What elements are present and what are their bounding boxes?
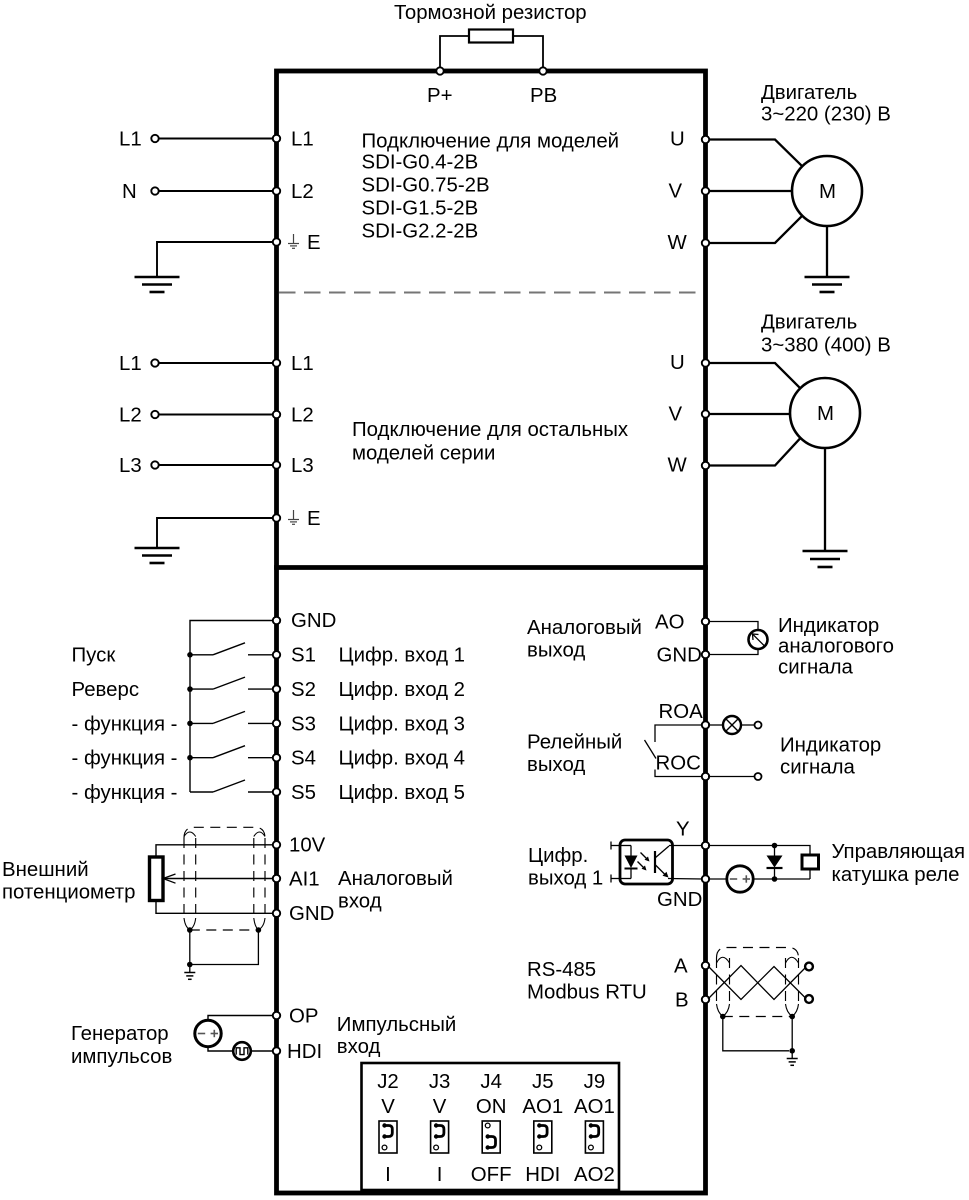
terminal S4 (273, 754, 280, 761)
junction dot S3 (187, 721, 193, 727)
wire E ground section1 (157, 242, 274, 277)
relay coil (802, 855, 819, 869)
svg-text:Индикатор: Индикатор (778, 615, 879, 637)
terminal ROA (702, 721, 709, 728)
svg-text:V: V (669, 180, 683, 202)
svg-text:J9: J9 (584, 1071, 606, 1093)
svg-text:А: А (674, 955, 688, 977)
terminal external B (805, 995, 813, 1003)
svg-text:GND: GND (289, 903, 334, 925)
svg-text:HDI: HDI (287, 1041, 322, 1063)
terminal E section1 (273, 238, 280, 245)
terminal external ROC (755, 773, 762, 780)
svg-text:S4: S4 (291, 748, 316, 770)
junction dot S2 (187, 686, 193, 692)
terminal N external (151, 187, 158, 194)
svg-text:L1: L1 (291, 353, 314, 375)
wire RS485 drain left (723, 1017, 789, 1051)
ground section2 input (135, 547, 180, 550)
svg-text:Релейный: Релейный (527, 732, 622, 754)
svg-text:Управляющая: Управляющая (832, 841, 966, 863)
svg-text:W: W (668, 232, 688, 254)
svg-text:OFF: OFF (471, 1164, 512, 1186)
svg-text:выход 1: выход 1 (528, 868, 603, 890)
svg-text:AO2: AO2 (574, 1164, 615, 1186)
svg-text:10V: 10V (289, 835, 326, 857)
terminal external A (805, 963, 813, 971)
cable shield potentiometer (184, 827, 265, 838)
svg-text:I: I (385, 1164, 391, 1186)
terminal L2 external section2 (151, 411, 158, 418)
terminal GND control (273, 617, 280, 624)
svg-text:S3: S3 (291, 713, 316, 735)
wire motor2 to ground (824, 448, 826, 551)
svg-text:Modbus RTU: Modbus RTU (527, 982, 647, 1004)
jumper J3 (431, 1121, 449, 1153)
switch S3 (190, 722, 213, 724)
wire U motor2 (708, 363, 800, 388)
svg-text:3~380 (400) В: 3~380 (400) В (761, 335, 891, 357)
wire brake resistor to PB (513, 36, 543, 69)
drive enclosure box (277, 71, 706, 1193)
terminal S5 (273, 788, 280, 795)
terminal L1 on enclosure (273, 135, 280, 142)
svg-text:сигнала: сигнала (778, 657, 854, 679)
jumper J9 (585, 1121, 603, 1153)
junction dot S1 (187, 652, 193, 658)
svg-text:S2: S2 (291, 679, 316, 701)
junction dot shield right (256, 927, 262, 933)
svg-text:аналогового: аналогового (778, 636, 894, 658)
ground shield potentiometer (184, 972, 195, 974)
wire motor1 to ground (826, 226, 828, 277)
wire AI1 wiper (163, 878, 274, 880)
svg-text:GND: GND (291, 610, 336, 632)
svg-text:3~220 (230) В: 3~220 (230) В (761, 104, 891, 126)
svg-text:OP: OP (289, 1005, 318, 1027)
svg-text:Тормозной резистор: Тормозной резистор (394, 2, 587, 24)
svg-text:U: U (670, 352, 685, 374)
terminal V motor2 (702, 410, 709, 417)
svg-text:выход: выход (527, 754, 585, 776)
twisted pair wire 1 (708, 966, 807, 1000)
svg-text:S5: S5 (291, 782, 316, 804)
terminal L2 on enclosure (273, 187, 280, 194)
wire opto collector to Y (669, 845, 703, 847)
svg-text:Реверс: Реверс (72, 679, 140, 701)
terminal S1 (273, 651, 280, 658)
svg-text:GND: GND (657, 889, 702, 911)
terminal U motor2 (702, 359, 709, 366)
wire 10V to potentiometer (156, 845, 274, 857)
wire U motor1 (708, 140, 802, 167)
svg-text:- функция -: - функция - (72, 782, 178, 804)
wire pulse symbol to HDI (251, 1050, 274, 1052)
switch S5 (190, 791, 213, 793)
dashed separator between model sections (279, 292, 703, 294)
svg-text:Аналоговый: Аналоговый (338, 868, 453, 890)
svg-text:- функция -: - функция - (72, 713, 178, 735)
wire L1 input section2 (159, 362, 274, 364)
ground motor1 (805, 276, 850, 279)
wire W motor1 (708, 216, 802, 243)
svg-text:SDI-G0.75-2В: SDI-G0.75-2В (362, 175, 490, 197)
svg-text:выход: выход (527, 640, 585, 662)
ground motor2 (803, 550, 848, 553)
junction dot shield left (187, 927, 193, 933)
svg-text:сигнала: сигнала (780, 757, 856, 779)
resistor brake resistor (469, 30, 513, 43)
terminal P+ (436, 67, 443, 74)
svg-text:Подключение для остальных: Подключение для остальных (352, 419, 628, 441)
svg-text:L1: L1 (119, 129, 142, 151)
terminal external ROA (755, 722, 762, 729)
svg-text:РВ: РВ (530, 85, 557, 107)
svg-text:AO1: AO1 (522, 1096, 563, 1118)
wiper arrowhead (163, 874, 176, 883)
svg-text:Аналоговый: Аналоговый (527, 617, 642, 639)
terminal L1 external section2 (151, 359, 158, 366)
svg-text:SDI-G1.5-2В: SDI-G1.5-2В (362, 198, 479, 220)
svg-text:ROC: ROC (656, 753, 701, 775)
terminal L3 external section2 (151, 461, 158, 468)
svg-text:Цифр. вход 1: Цифр. вход 1 (339, 645, 466, 667)
svg-text:J2: J2 (377, 1071, 399, 1093)
wire L2 input section2 (159, 414, 274, 416)
wire L1 input (159, 138, 274, 140)
terminal L1 on enclosure section2 (273, 359, 280, 366)
wire drain to ground (189, 965, 191, 973)
wire potentiometer to GND (156, 901, 274, 914)
junction dot RS485 shield right (789, 1014, 795, 1020)
wire W motor2 (708, 438, 800, 465)
junction dot diode top (772, 843, 778, 849)
svg-text:SDI-G0.4-2В: SDI-G0.4-2В (362, 152, 479, 174)
svg-text:W: W (668, 454, 688, 476)
svg-text:Пуск: Пуск (72, 645, 117, 667)
motor M1 (792, 156, 862, 226)
svg-text:Цифр. вход 3: Цифр. вход 3 (339, 713, 466, 735)
switch S2 (190, 688, 213, 690)
terminal GND analog out (702, 651, 709, 658)
supply source circle (727, 866, 753, 892)
svg-text:V: V (381, 1096, 395, 1118)
wire RS485 drain to ground (791, 1051, 793, 1059)
wire lamp to external terminal (741, 724, 754, 726)
optocoupler left lead top (611, 845, 620, 847)
optocoupler body (620, 840, 673, 884)
svg-text:Цифр. вход 2: Цифр. вход 2 (339, 679, 466, 701)
svg-text:GND: GND (657, 644, 702, 666)
wire shield drain right (190, 930, 259, 965)
svg-text:М: М (817, 403, 834, 425)
svg-text:N: N (122, 181, 137, 203)
terminal L1 external (151, 135, 158, 142)
terminal V motor1 (702, 187, 709, 194)
svg-text:J5: J5 (532, 1071, 554, 1093)
pulse source circle (195, 1020, 221, 1046)
wire AO to indicator (708, 622, 758, 631)
pulse symbol circle (233, 1042, 251, 1060)
svg-text:ON: ON (476, 1096, 507, 1118)
wire V motor1 (708, 190, 792, 192)
svg-text:вход: вход (337, 1036, 381, 1058)
svg-text:J3: J3 (429, 1071, 451, 1093)
earth glyph E section2 (288, 510, 299, 524)
svg-text:ROA: ROA (659, 701, 704, 723)
wire indicator to GND (708, 649, 758, 655)
terminal OP (273, 1012, 280, 1019)
terminal 10V (273, 841, 280, 848)
terminal A (702, 962, 709, 969)
junction dot shield drain (187, 962, 193, 968)
svg-text:Y: Y (676, 819, 690, 841)
terminal W motor2 (702, 462, 709, 469)
svg-text:V: V (669, 403, 683, 425)
svg-text:RS-485: RS-485 (527, 959, 596, 981)
terminal L3 on enclosure section2 (273, 461, 280, 468)
svg-text:AO1: AO1 (574, 1096, 615, 1118)
wire pulse source to pulse symbol (208, 1047, 233, 1051)
svg-text:В: В (675, 989, 689, 1011)
svg-text:Цифр. вход 4: Цифр. вход 4 (339, 748, 466, 770)
supply source plus (743, 878, 750, 880)
wire L3 input section2 (159, 464, 274, 466)
analog indicator meter (749, 630, 768, 649)
wire GND to switch bus (190, 621, 274, 793)
svg-text:U: U (670, 128, 685, 150)
terminal GND digital out (702, 875, 709, 882)
ground section1 input (135, 276, 180, 279)
svg-text:E: E (307, 508, 321, 530)
terminal E section2 (273, 514, 280, 521)
svg-text:Генератор: Генератор (71, 1023, 169, 1045)
jumper J5 (534, 1121, 552, 1153)
switch S1 (190, 654, 213, 656)
svg-text:Цифр.: Цифр. (528, 845, 588, 867)
pulse source plus (211, 1033, 218, 1035)
junction dot RS485 drain (789, 1048, 795, 1054)
earth glyph E section1 (288, 234, 299, 248)
svg-text:S1: S1 (291, 645, 316, 667)
svg-text:I: I (437, 1164, 443, 1186)
wire ROC to external terminal (708, 776, 754, 778)
terminal S3 (273, 720, 280, 727)
svg-text:катушка реле: катушка реле (832, 864, 960, 886)
terminal ROC (702, 773, 709, 780)
svg-text:- функция -: - функция - (72, 748, 178, 770)
svg-text:P+: P+ (427, 85, 453, 107)
optocoupler LED (620, 845, 631, 847)
svg-text:М: М (819, 181, 836, 203)
svg-text:J4: J4 (480, 1071, 502, 1093)
junction dot S4 (187, 755, 193, 761)
wire Y to relay coil (708, 846, 810, 856)
svg-text:Двигатель: Двигатель (761, 312, 857, 334)
optocoupler phototransistor (654, 851, 656, 873)
terminal L2 on enclosure section2 (273, 411, 280, 418)
switch S4 (190, 757, 213, 759)
optocoupler light arrows (641, 853, 649, 861)
wire P+ to brake resistor (440, 36, 469, 69)
svg-text:SDI-G2.2-2В: SDI-G2.2-2В (362, 221, 479, 243)
pulse source minus (198, 1033, 205, 1035)
wire OP to pulse source (208, 1016, 274, 1021)
cable shield RS-485 (717, 948, 799, 959)
svg-text:L2: L2 (119, 405, 142, 427)
wire shield drain left (189, 930, 191, 965)
svg-text:AI1: AI1 (289, 868, 320, 890)
twisted pair wire 2 (708, 966, 807, 1000)
svg-text:V: V (433, 1096, 447, 1118)
terminal W motor1 (702, 239, 709, 246)
terminal AO (702, 618, 709, 625)
svg-text:L2: L2 (291, 405, 314, 427)
svg-text:импульсов: импульсов (71, 1046, 172, 1068)
svg-text:потенциометр: потенциометр (2, 882, 135, 904)
svg-text:L3: L3 (119, 455, 142, 477)
svg-text:AO: AO (655, 611, 684, 633)
wire RS485 drain right (791, 1017, 793, 1051)
relay contact ROA-ROC (655, 725, 703, 742)
supply source minus (730, 878, 737, 880)
terminal Y (702, 842, 709, 849)
wire opto emitter to GND (668, 878, 703, 881)
svg-text:Цифр. вход 5: Цифр. вход 5 (339, 782, 466, 804)
jumper J2 (379, 1121, 397, 1153)
jumper J4 (482, 1121, 500, 1153)
svg-text:Двигатель: Двигатель (761, 82, 857, 104)
junction dot diode bottom (772, 876, 778, 882)
svg-text:HDI: HDI (525, 1164, 560, 1186)
wire ROA to lamp (708, 724, 723, 726)
terminal B (702, 996, 709, 1003)
diode freewheel (774, 846, 776, 856)
svg-text:Внешний: Внешний (2, 859, 89, 881)
svg-text:L2: L2 (291, 181, 314, 203)
terminal HDI (273, 1047, 280, 1054)
svg-text:Индикатор: Индикатор (780, 735, 881, 757)
svg-text:вход: вход (338, 891, 382, 913)
wire GND rail (753, 878, 810, 880)
svg-text:L3: L3 (291, 455, 314, 477)
terminal GND analog (273, 910, 280, 917)
motor M2 (790, 378, 860, 448)
divider between power and control sections (274, 565, 708, 570)
svg-text:L1: L1 (291, 129, 314, 151)
ground shield RS-485 (787, 1058, 798, 1060)
svg-text:L1: L1 (119, 353, 142, 375)
wire N input (159, 190, 274, 192)
terminal AI1 (273, 875, 280, 882)
svg-text:E: E (307, 232, 321, 254)
wire V motor2 (708, 413, 790, 415)
terminal PB (539, 67, 546, 74)
lamp signal indicator (723, 716, 741, 734)
svg-text:моделей серии: моделей серии (352, 443, 495, 465)
svg-text:Импульсный: Импульсный (337, 1014, 457, 1036)
wire E ground section2 (157, 518, 274, 548)
jumper block frame (362, 1063, 620, 1190)
pulse waveform glyph (236, 1048, 248, 1055)
svg-text:Подключение для моделей: Подключение для моделей (362, 131, 620, 153)
terminal S2 (273, 685, 280, 692)
potentiometer body (150, 857, 164, 901)
optocoupler left lead bottom (611, 878, 620, 880)
junction dot RS485 shield left (720, 1014, 726, 1020)
wire relay coil to GND rail (809, 869, 811, 879)
terminal U motor1 (702, 136, 709, 143)
